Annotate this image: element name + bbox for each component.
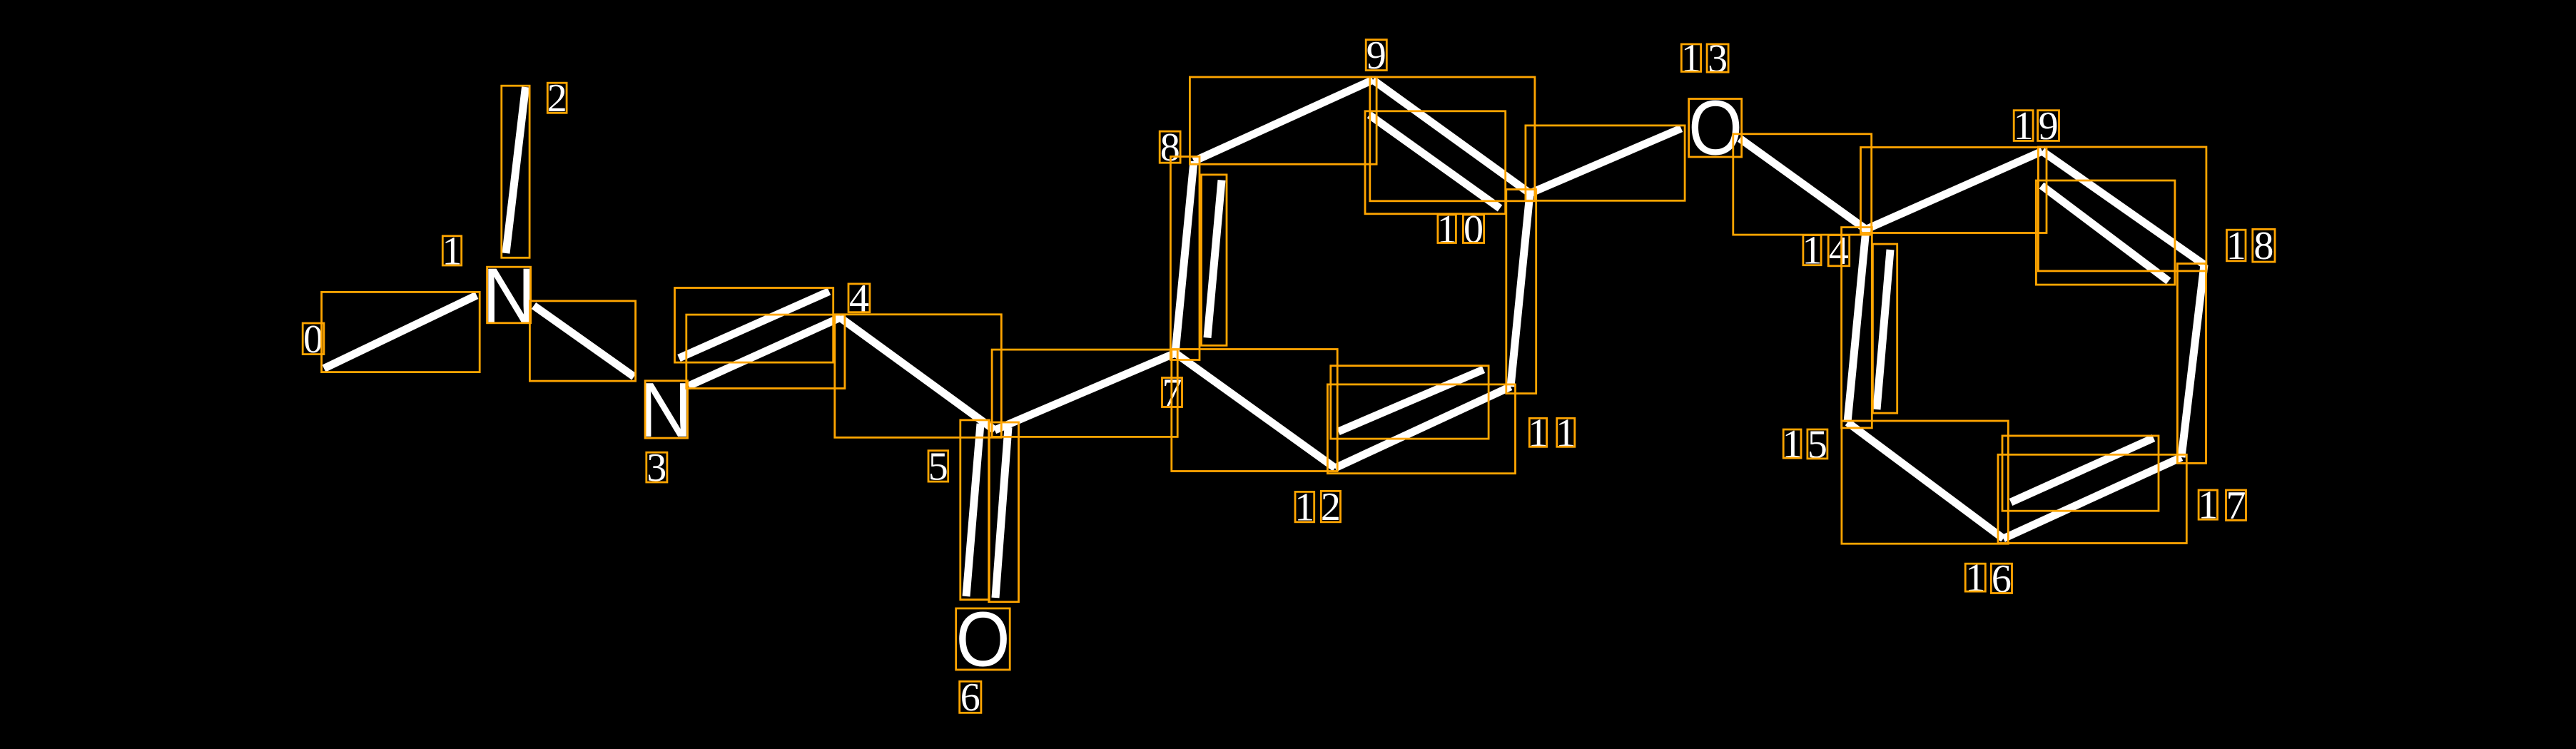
svg-text:1: 1	[1681, 36, 1701, 81]
svg-text:N: N	[639, 367, 692, 454]
svg-text:N: N	[482, 252, 536, 339]
